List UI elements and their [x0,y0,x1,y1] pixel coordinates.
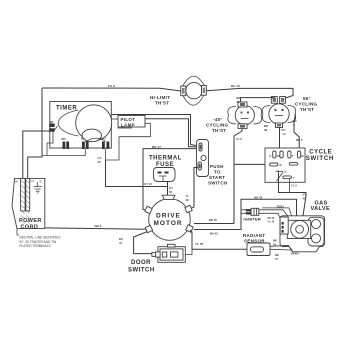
wire left contact lead down to junction [42,132,53,156]
wire pilot to push-to-start [145,119,196,147]
svg-text:SWITCH: SWITCH [208,181,228,186]
note neutral line [17,229,19,235]
svg-text:CYCLE: CYCLE [309,149,332,155]
pilot lamp [112,116,146,129]
svg-text:WH55: WH55 [291,252,299,256]
svg-text:TH'ST: TH'ST [212,128,226,133]
svg-text:FU 8: FU 8 [108,84,115,88]
wire to cycle switch B [234,163,270,165]
wire GY 16 run to motor junction [106,160,168,187]
wire top rail right BU 12 [206,88,293,98]
wire fuse to motor top GY 52 [167,182,169,196]
svg-text:BR 55: BR 55 [209,218,217,222]
cycle switch top contacts [269,151,304,158]
wire timer to push-to-start upper [112,115,197,146]
wire WH 3 bottom rail [45,228,146,229]
svg-text:BK 43: BK 43 [210,232,218,236]
svg-text:RADIANT: RADIANT [243,233,265,238]
svg-text:PILOT: PILOT [121,117,136,122]
svg-text:SWITCH: SWITCH [128,268,155,274]
wire left outer drop to L1 [28,88,42,178]
svg-text:HI-LIMIT: HI-LIMIT [150,95,170,100]
svg-text:START: START [209,175,225,180]
svg-text:THERMAL: THERMAL [149,156,182,162]
svg-text:MOTOR: MOTOR [154,220,183,227]
timer contact left edge [49,120,55,132]
svg-text:TH'ST: TH'ST [155,101,169,106]
svg-text:48: 48 [186,198,190,202]
cycle switch lower contacts [276,170,295,181]
svg-text:WH 3: WH 3 [95,224,102,228]
wire BU 41 motor to door switch [134,232,152,254]
svg-text:YL 55: YL 55 [195,242,204,246]
svg-text:FUSE: FUSE [156,162,174,168]
wire cycle P to gas valve [279,172,307,216]
wire BR 55 [194,223,234,225]
cycle switch box [265,148,305,182]
igniter [246,208,259,215]
svg-text:RD 5: RD 5 [296,138,303,142]
svg-text:55°: 55° [303,96,311,101]
wire YL 2 from 40 tstat down [234,129,242,224]
svg-text:CYCLING: CYCLING [206,123,229,128]
svg-text:G: G [269,154,271,158]
wire cycle Y down [289,179,291,193]
svg-text:YL 5: YL 5 [291,184,297,188]
thermostat 40 cycling [228,102,262,129]
svg-text:47: 47 [275,257,279,261]
thermostat 55 cycling [262,97,295,128]
svg-text:GY 16: GY 16 [144,182,152,186]
wire BK 43 [194,199,297,229]
wire sensor to valve WH55 [270,245,292,250]
drive motor [145,195,193,240]
svg-text:-14: -14 [282,132,286,136]
svg-text:IGNITER: IGNITER [243,217,261,222]
wire igniter feed [241,210,246,214]
door switch [152,244,185,262]
thermal fuse [154,168,176,182]
svg-text:CYCLING: CYCLING [295,102,318,107]
svg-text:52: 52 [169,190,173,194]
svg-text:N: N [16,179,18,183]
svg-text:RD: RD [62,137,66,141]
svg-text:BK: BK [50,120,54,124]
gas valve [280,216,325,252]
svg-text:VALVE: VALVE [311,206,331,212]
svg-text:TO: TO [214,170,221,175]
svg-text:PLATED TERMINALS: PLATED TERMINALS [19,244,50,248]
svg-text:41: 41 [119,241,123,245]
svg-text:16: 16 [98,160,102,164]
svg-text:DRIVE: DRIVE [156,212,181,219]
svg-text:YL 2: YL 2 [236,137,242,141]
svg-text:POWER: POWER [19,218,42,224]
svg-text:CORD: CORD [21,225,39,231]
timer contact arc [85,138,105,142]
svg-text:RD 47: RD 47 [152,145,161,149]
wire YL 48 push-start to motor [191,168,198,209]
wire top rail FU 8 [42,88,181,91]
radiant sensor [247,243,270,256]
svg-text:38: 38 [264,128,268,132]
svg-text:BU 12: BU 12 [231,84,240,88]
timer cam [76,105,112,141]
wire igniter to valve [259,210,288,219]
svg-text:B: B [280,163,282,167]
wire N drop [23,131,51,178]
wire RD23 [262,208,292,216]
svg-text:L1: L1 [31,179,35,183]
thermostat hi-limit [181,76,207,105]
wire timer right contact loop [106,123,151,160]
svg-text:LAMP: LAMP [121,122,135,127]
wire YL 55 motor to sensor [190,230,247,249]
svg-text:41: 41 [303,197,307,201]
power cord tag [12,178,45,228]
svg-text:G: G [40,179,42,183]
svg-text:BK: BK [81,137,85,141]
svg-text:RD23: RD23 [277,204,285,208]
svg-text:PUSH: PUSH [210,164,224,169]
svg-text:BK 43: BK 43 [254,195,262,199]
svg-text:38: 38 [237,100,241,104]
timer contacts bottom [62,137,70,149]
svg-text:DOOR: DOOR [131,260,151,266]
svg-text:P: P [285,170,287,174]
svg-text:Y: Y [293,176,295,180]
push to start switch [197,140,209,177]
svg-text:54: 54 [273,243,277,247]
wire BK 38 [241,97,275,103]
svg-text:TH'ST: TH'ST [300,107,314,112]
wire 55 bottom PU-14 to cycle switch [279,128,281,149]
wire RD 47 push-to-start to motor [143,149,197,210]
svg-text:SWITCH: SWITCH [306,156,334,162]
wire RD 5 to cycle switch [294,114,299,148]
svg-text:SENSOR: SENSOR [244,239,265,244]
cycle switch mid contacts [270,163,298,167]
timer box [50,102,112,149]
svg-text:-40°: -40° [213,117,223,122]
svg-text:Y: Y [292,154,294,158]
wire timer lower links [47,149,85,156]
